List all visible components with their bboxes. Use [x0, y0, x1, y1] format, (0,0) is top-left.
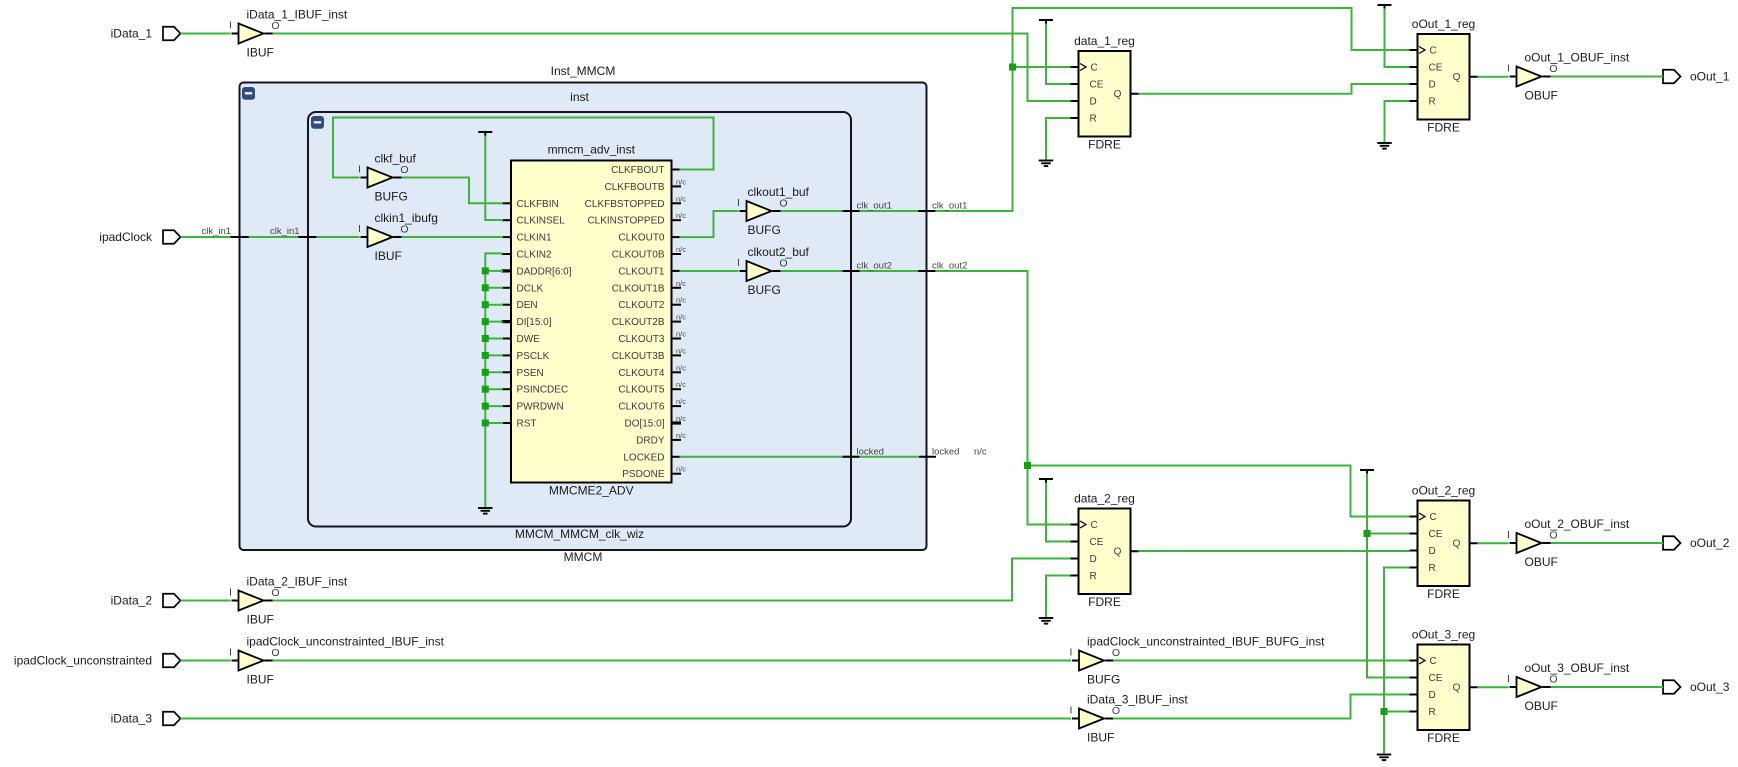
svg-text:DADDR[6:0]: DADDR[6:0] [517, 266, 572, 277]
ground for oOut_1_reg R [1377, 101, 1409, 149]
svg-text:n/c: n/c [676, 296, 686, 305]
buffer ipadClock_unconstrainted_IBUF_BUFG_inst (BUFG) [1070, 635, 1326, 687]
svg-text:clkout1_buf: clkout1_buf [748, 185, 810, 199]
svg-text:CE: CE [1429, 673, 1443, 684]
svg-text:FDRE: FDRE [1088, 138, 1121, 152]
svg-text:I: I [737, 197, 740, 209]
collapse button (inner box) [311, 116, 324, 129]
wire ipadClock_unconstrainted_IBUF to BUFG [273, 660, 1072, 662]
svg-text:CE: CE [1429, 63, 1443, 74]
svg-text:R: R [1429, 563, 1436, 574]
svg-text:iData_2: iData_2 [111, 594, 153, 608]
svg-text:iData_1_IBUF_inst: iData_1_IBUF_inst [247, 8, 348, 22]
svg-text:OBUF: OBUF [1525, 89, 1558, 103]
wire net iData_2_IBUF to data_2_reg D [273, 559, 1071, 601]
svg-text:R: R [1429, 97, 1436, 108]
svg-text:Q: Q [1453, 682, 1461, 693]
svg-text:FDRE: FDRE [1427, 731, 1460, 745]
buffer ipadClock_unconstrainted_IBUF_inst (IBUF) [229, 635, 445, 687]
svg-text:BUFG: BUFG [1087, 673, 1120, 687]
flip-flop oOut_2_reg (FDRE) [1410, 484, 1478, 602]
buffer iData_2_IBUF_inst (IBUF) [229, 575, 348, 627]
buffer clkout1_buf (BUFG) [737, 185, 810, 237]
wire iData_1 port to IBUF [181, 33, 231, 35]
svg-text:iData_1: iData_1 [111, 27, 153, 41]
svg-text:O: O [779, 198, 787, 210]
wire oOut_2_OBUF to port oOut_2 [1551, 542, 1664, 544]
svg-text:FDRE: FDRE [1427, 121, 1460, 135]
output port oOut_2 [1663, 536, 1730, 550]
svg-text:clkout2_buf: clkout2_buf [748, 245, 810, 259]
svg-text:oOut_3: oOut_3 [1690, 680, 1730, 694]
svg-text:clk_in1: clk_in1 [270, 226, 300, 237]
svg-text:oOut_3_reg: oOut_3_reg [1412, 628, 1475, 642]
svg-text:clkf_buf: clkf_buf [375, 152, 417, 166]
svg-text:iData_3_IBUF_inst: iData_3_IBUF_inst [1087, 693, 1188, 707]
svg-text:n/c: n/c [676, 245, 686, 254]
svg-text:IBUF: IBUF [247, 46, 274, 60]
svg-text:iData_3: iData_3 [111, 712, 153, 726]
svg-text:Q: Q [1114, 89, 1122, 100]
buffer iData_1_IBUF_inst (IBUF) [229, 8, 348, 60]
svg-text:CLKOUT3: CLKOUT3 [618, 334, 665, 345]
MMCME2_ADV primitive mmcm_adv_inst [502, 143, 687, 498]
svg-text:C: C [1430, 656, 1437, 667]
svg-text:oOut_2_OBUF_inst: oOut_2_OBUF_inst [1525, 517, 1630, 531]
svg-text:O: O [1112, 705, 1120, 717]
svg-text:C: C [1430, 512, 1437, 523]
svg-text:CLKOUT0: CLKOUT0 [618, 233, 665, 244]
svg-text:C: C [1091, 520, 1098, 531]
flip-flop oOut_1_reg (FDRE) [1410, 17, 1478, 135]
wire net locked (unconnected) [680, 446, 987, 457]
wire data_1_reg Q to oOut_1_reg D [1139, 84, 1410, 94]
svg-text:PSCLK: PSCLK [517, 351, 550, 362]
svg-text:BUFG: BUFG [748, 223, 781, 237]
svg-text:clk_out2: clk_out2 [857, 261, 892, 272]
svg-text:BUFG: BUFG [375, 190, 408, 204]
power VCC for CLKINSEL [478, 132, 503, 220]
power VCC for data_2_reg CE [1039, 479, 1071, 542]
svg-text:I: I [358, 164, 361, 176]
svg-text:CLKOUT1B: CLKOUT1B [612, 283, 665, 294]
svg-text:R: R [1090, 571, 1097, 582]
svg-text:n/c: n/c [676, 380, 686, 389]
ground net for MMCM control pins [478, 253, 503, 513]
svg-text:CLKOUT2B: CLKOUT2B [612, 317, 665, 328]
power VCC for data_1_reg CE [1039, 20, 1071, 84]
flip-flop data_2_reg (FDRE) [1071, 492, 1139, 610]
input port iData_1 [111, 27, 181, 41]
svg-text:PWRDWN: PWRDWN [517, 402, 564, 413]
svg-text:IBUF: IBUF [247, 673, 274, 687]
wire CLKOUT0 to clkout1_buf [680, 211, 739, 237]
svg-text:I: I [1070, 647, 1073, 659]
svg-text:n/c: n/c [676, 346, 686, 355]
svg-text:ipadClock: ipadClock [99, 230, 153, 244]
svg-text:n/c: n/c [676, 330, 686, 339]
svg-text:I: I [229, 587, 232, 599]
svg-text:IBUF: IBUF [1087, 731, 1114, 745]
svg-text:O: O [271, 647, 279, 659]
ground for data_1_reg R [1039, 118, 1071, 166]
input port ipadClock [99, 230, 180, 244]
svg-text:locked: locked [932, 446, 959, 457]
svg-text:CE: CE [1090, 80, 1104, 91]
svg-text:D: D [1090, 97, 1097, 108]
svg-text:LOCKED: LOCKED [623, 452, 664, 463]
svg-text:O: O [400, 224, 408, 236]
svg-text:iData_2_IBUF_inst: iData_2_IBUF_inst [247, 575, 348, 589]
hierarchical block Inst_MMCM (outer blue box) [240, 64, 927, 564]
svg-text:DO[15:0]: DO[15:0] [624, 419, 664, 430]
svg-text:DI[15:0]: DI[15:0] [517, 317, 552, 328]
svg-text:CE: CE [1090, 537, 1104, 548]
buffer oOut_3_OBUF_inst (OBUF) [1507, 661, 1630, 713]
svg-text:FDRE: FDRE [1088, 595, 1121, 609]
wire clkin1_ibufg to CLKIN1 [402, 236, 504, 238]
svg-text:IBUF: IBUF [247, 613, 274, 627]
svg-text:MMCM_MMCM_clk_wiz: MMCM_MMCM_clk_wiz [515, 527, 644, 541]
svg-text:DWE: DWE [517, 334, 541, 345]
wire iData_3 port to IBUF [181, 718, 1072, 720]
svg-text:oOut_3_OBUF_inst: oOut_3_OBUF_inst [1525, 661, 1630, 675]
flip-flop data_1_reg (FDRE) [1071, 34, 1139, 152]
svg-text:I: I [358, 223, 361, 235]
svg-text:n/c: n/c [676, 194, 686, 203]
output port oOut_1 [1663, 70, 1730, 84]
svg-text:Inst_MMCM: Inst_MMCM [551, 64, 616, 78]
wire net clk_out1: clkout1_buf to oOut_1_reg C and data_1_reg C [781, 8, 1410, 212]
wire ipadClock_unconstrainted port to IBUF [181, 660, 231, 662]
svg-text:O: O [271, 20, 279, 32]
svg-text:CLKOUT6: CLKOUT6 [618, 402, 665, 413]
input port ipadClock_unconstrainted [14, 654, 181, 668]
power VCC for oOut_1_reg CE [1378, 5, 1410, 67]
svg-text:n/c: n/c [676, 177, 686, 186]
svg-text:oOut_1: oOut_1 [1690, 70, 1730, 84]
wire data_2_reg Q to oOut_2_reg D [1139, 550, 1410, 552]
hierarchical block inst (inner blue box MMCM_MMCM_clk_wiz) [308, 90, 851, 541]
svg-text:oOut_1_reg: oOut_1_reg [1412, 17, 1475, 31]
svg-text:RST: RST [517, 419, 537, 430]
svg-text:O: O [271, 587, 279, 599]
svg-text:MMCM: MMCM [564, 550, 603, 564]
svg-text:O: O [1549, 530, 1557, 542]
svg-text:PSDONE: PSDONE [622, 469, 665, 480]
svg-text:oOut_2_reg: oOut_2_reg [1412, 484, 1475, 498]
svg-text:CLKFBIN: CLKFBIN [517, 199, 559, 210]
input port iData_2 [111, 594, 181, 608]
svg-text:n/c: n/c [676, 211, 686, 220]
svg-text:clk_out1: clk_out1 [857, 201, 892, 212]
buffer clkf_buf (BUFG) [358, 152, 416, 204]
wire CLKOUT1 to clkout2_buf [680, 270, 739, 272]
buffer iData_3_IBUF_inst (IBUF) [1070, 693, 1189, 745]
svg-text:n/c: n/c [676, 431, 686, 440]
svg-text:PSINCDEC: PSINCDEC [517, 385, 569, 396]
ground for data_2_reg R [1039, 576, 1071, 624]
buffer clkout2_buf (BUFG) [737, 245, 810, 297]
svg-text:IBUF: IBUF [375, 249, 402, 263]
svg-text:MMCME2_ADV: MMCME2_ADV [549, 484, 634, 498]
svg-text:R: R [1090, 114, 1097, 125]
svg-text:clk_in1: clk_in1 [202, 226, 232, 237]
svg-text:I: I [1507, 529, 1510, 541]
collapse button (outer box) [242, 87, 255, 100]
svg-text:data_1_reg: data_1_reg [1074, 34, 1135, 48]
svg-text:C: C [1430, 46, 1437, 57]
svg-text:I: I [1070, 705, 1073, 717]
output port oOut_3 [1663, 680, 1730, 694]
wire net iData_1_IBUF to data_1_reg D [273, 34, 1071, 102]
wire oOut_1_reg Q to OBUF [1478, 76, 1509, 78]
flip-flop oOut_3_reg (FDRE) [1410, 628, 1478, 746]
svg-text:CLKOUT1: CLKOUT1 [618, 266, 665, 277]
svg-text:O: O [1549, 674, 1557, 686]
svg-text:CLKOUT2: CLKOUT2 [618, 300, 665, 311]
svg-text:n/c: n/c [676, 397, 686, 406]
svg-text:OBUF: OBUF [1525, 555, 1558, 569]
svg-text:clk_out2: clk_out2 [932, 261, 967, 272]
svg-text:CLKIN2: CLKIN2 [517, 250, 552, 261]
svg-text:I: I [229, 647, 232, 659]
svg-text:mmcm_adv_inst: mmcm_adv_inst [548, 143, 636, 157]
svg-text:CLKINSEL: CLKINSEL [517, 216, 566, 227]
svg-text:Q: Q [1453, 72, 1461, 83]
svg-text:CLKIN1: CLKIN1 [517, 233, 552, 244]
wire net clk_out2: clkout2_buf to data_2_reg C and oOut_2_reg C [781, 261, 1410, 525]
svg-text:ipadClock_unconstrainted_IBUF_: ipadClock_unconstrainted_IBUF_inst [247, 635, 445, 649]
svg-text:CLKOUT5: CLKOUT5 [618, 385, 665, 396]
wire iData_3_IBUF to oOut_3_reg D [1113, 695, 1410, 719]
svg-text:oOut_1_OBUF_inst: oOut_1_OBUF_inst [1525, 51, 1630, 65]
svg-text:locked: locked [857, 446, 884, 457]
svg-text:I: I [1507, 63, 1510, 75]
svg-text:CLKOUT4: CLKOUT4 [618, 368, 665, 379]
svg-text:CLKINSTOPPED: CLKINSTOPPED [587, 216, 664, 227]
wire oOut_2_reg Q to OBUF [1478, 542, 1509, 544]
svg-text:D: D [1429, 546, 1436, 557]
svg-text:O: O [400, 164, 408, 176]
svg-text:FDRE: FDRE [1427, 587, 1460, 601]
svg-text:O: O [1112, 647, 1120, 659]
svg-text:n/c: n/c [676, 279, 686, 288]
svg-text:DRDY: DRDY [636, 435, 665, 446]
svg-text:clk_out1: clk_out1 [932, 201, 967, 212]
ground shared for oOut_2_reg/oOut_3_reg R [1377, 568, 1410, 761]
svg-text:D: D [1090, 554, 1097, 565]
svg-text:CLKFBOUT: CLKFBOUT [611, 165, 664, 176]
svg-text:DCLK: DCLK [517, 283, 544, 294]
svg-text:inst: inst [570, 90, 589, 104]
wire CLKFBOUT feedback to clkf_buf input [333, 118, 714, 178]
svg-text:clkin1_ibufg: clkin1_ibufg [375, 211, 438, 225]
svg-text:n/c: n/c [676, 414, 686, 423]
svg-text:n/c: n/c [676, 465, 686, 474]
svg-text:n/c: n/c [676, 313, 686, 322]
svg-text:I: I [1507, 673, 1510, 685]
wire oOut_3_OBUF to port oOut_3 [1551, 686, 1664, 688]
buffer clkin1_ibufg (IBUF) [358, 211, 438, 263]
svg-text:data_2_reg: data_2_reg [1074, 492, 1135, 506]
svg-text:oOut_2: oOut_2 [1690, 536, 1730, 550]
wire clkf_buf output to CLKFBIN [402, 178, 504, 204]
svg-text:DEN: DEN [517, 300, 538, 311]
svg-text:C: C [1091, 63, 1098, 74]
svg-text:CE: CE [1429, 529, 1443, 540]
svg-text:CLKOUT3B: CLKOUT3B [612, 351, 665, 362]
svg-text:D: D [1429, 690, 1436, 701]
svg-text:I: I [229, 20, 232, 32]
svg-text:Q: Q [1114, 546, 1122, 557]
wire oOut_1_OBUF to port oOut_1 [1551, 76, 1664, 78]
svg-text:ipadClock_unconstrainted_IBUF_: ipadClock_unconstrainted_IBUF_BUFG_inst [1087, 635, 1325, 649]
svg-text:n/c: n/c [676, 363, 686, 372]
svg-text:n/c: n/c [974, 446, 987, 457]
input port iData_3 [111, 712, 181, 726]
wire iData_2 port to IBUF [181, 600, 231, 602]
svg-text:OBUF: OBUF [1525, 699, 1558, 713]
buffer oOut_2_OBUF_inst (OBUF) [1507, 517, 1630, 569]
power VCC shared for oOut_2_reg/oOut_3_reg CE [1360, 470, 1410, 678]
svg-text:I: I [737, 257, 740, 269]
svg-text:CLKFBSTOPPED: CLKFBSTOPPED [585, 199, 665, 210]
wire ipadClock port to clkin1_ibufg (net clk_in1) [181, 226, 360, 237]
svg-text:CLKFBOUTB: CLKFBOUTB [604, 182, 664, 193]
svg-text:Q: Q [1453, 538, 1461, 549]
svg-text:D: D [1429, 80, 1436, 91]
svg-text:O: O [779, 258, 787, 270]
svg-text:CLKOUT0B: CLKOUT0B [612, 250, 665, 261]
svg-text:ipadClock_unconstrainted: ipadClock_unconstrainted [14, 654, 152, 668]
svg-text:R: R [1429, 707, 1436, 718]
svg-text:O: O [1549, 63, 1557, 75]
svg-text:PSEN: PSEN [517, 368, 544, 379]
wire BUFG output to oOut_3_reg C [1113, 660, 1410, 662]
wire oOut_3_reg Q to OBUF [1478, 686, 1509, 688]
svg-text:BUFG: BUFG [748, 283, 781, 297]
buffer oOut_1_OBUF_inst (OBUF) [1507, 51, 1630, 103]
